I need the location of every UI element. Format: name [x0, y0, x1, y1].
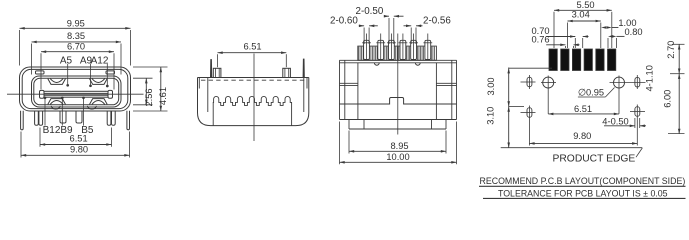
svg-text:10.00: 10.00: [386, 152, 409, 162]
svg-text:4-1.10: 4-1.10: [644, 65, 654, 91]
svg-text:2-0.56: 2-0.56: [423, 15, 451, 26]
rear view lower band top line: [340, 119, 457, 121]
svg-text:2-0.50: 2-0.50: [356, 6, 384, 17]
top view inner side line right: [303, 78, 305, 113]
leader B12: [44, 99, 46, 126]
front view horizontal centerline: [7, 93, 144, 95]
front view cavity outer contour: [32, 76, 122, 107]
top view body inner edge right: [306, 78, 308, 89]
rear view key line with center step: [340, 98, 457, 105]
svg-text:PRODUCT EDGE: PRODUCT EDGE: [553, 154, 636, 165]
pcb oval pad bottom-left: [527, 108, 532, 118]
top view inner side line left: [207, 78, 209, 113]
front view tongue right end cap: [108, 90, 113, 98]
svg-text:A12: A12: [91, 55, 109, 66]
svg-text:0.76: 0.76: [532, 35, 550, 45]
front view left leg pair: [35, 111, 39, 126]
svg-text:8.95: 8.95: [390, 141, 408, 151]
pcb hole left: [543, 77, 554, 88]
top view body inner edge left: [198, 78, 200, 89]
rear view inner verticals outer pair: [344, 60, 346, 119]
leader B5: [83, 99, 85, 126]
rear view solder pins row: [364, 40, 370, 59]
front view weld mark right: [106, 71, 115, 74]
svg-text:9.95: 9.95: [67, 19, 85, 29]
top view shell tab tip right: [303, 59, 304, 78]
front view cavity bottom arc right: [88, 106, 97, 109]
pcb oval pad bottom-right: [635, 107, 640, 117]
pcb hole right: [614, 77, 625, 88]
pcb pads row: [549, 49, 557, 71]
rear view dimple right: [415, 63, 420, 65]
rear view band bottom double line right: [436, 82, 456, 84]
top view shell tab tip left: [210, 60, 211, 78]
svg-text:0.80: 0.80: [625, 27, 643, 37]
leader B9: [61, 99, 63, 126]
front view top contact bump left: [48, 79, 66, 85]
svg-text:3.00: 3.00: [486, 77, 496, 95]
svg-text:6.51: 6.51: [574, 104, 592, 114]
top view vertical centerline: [253, 54, 255, 142]
svg-text:2-0.60: 2-0.60: [330, 15, 358, 26]
rear view vertical centerline: [397, 34, 399, 135]
svg-text:6.51: 6.51: [70, 133, 88, 143]
svg-text:3.04: 3.04: [572, 10, 590, 20]
front view side peg right: [127, 111, 130, 130]
front view cavity bottom arc left: [51, 106, 60, 109]
dimension 4.61 shell height: [133, 66, 168, 68]
svg-text:6.00: 6.00: [663, 90, 673, 108]
front view middle stub right: [76, 111, 82, 123]
product edge line: [501, 147, 643, 149]
top view hidden edge dashed: [201, 79, 307, 81]
svg-text:TOLERANCE FOR PCB LAYOUT IS ±: TOLERANCE FOR PCB LAYOUT IS ± 0.05: [498, 188, 668, 198]
pcb oval pad top-left: [527, 77, 532, 87]
front view shell outer contour: [20, 67, 131, 111]
front view bottom contact bump right: [90, 99, 108, 105]
front view tongue left end cap: [40, 90, 45, 98]
top view mounting post right: [283, 68, 291, 77]
front view side peg left: [21, 111, 24, 130]
front view tongue body: [44, 91, 108, 97]
rear view bottom skirt: [348, 120, 350, 130]
front view shell inner contour: [22, 69, 128, 108]
front view bottom contact bump left: [48, 99, 66, 105]
leader A9: [90, 64, 92, 85]
rear view body outer box: [340, 59, 457, 61]
front view middle stub left: [60, 111, 66, 123]
rear view hatched solder band: [358, 46, 437, 60]
dimension 2.56 cavity height: [133, 77, 153, 79]
svg-text:6.70: 6.70: [67, 41, 85, 51]
front view right leg pair: [107, 111, 111, 126]
rear view band bottom double line left: [340, 82, 358, 84]
front view top contact bump right: [90, 79, 108, 85]
svg-text:2.70: 2.70: [666, 41, 676, 59]
top view contact comb scallops: [213, 96, 291, 125]
svg-text:4-0.50: 4-0.50: [602, 117, 628, 127]
svg-text:3.10: 3.10: [486, 107, 496, 125]
rear view dimple left: [374, 63, 379, 65]
front view cavity inner contour: [34, 78, 119, 105]
svg-text:A5: A5: [60, 55, 73, 66]
svg-text:RECOMMEND P.C.B LAYOUT(COMPONE: RECOMMEND P.C.B LAYOUT(COMPONENT SIDE): [480, 176, 686, 186]
leader A5: [67, 64, 69, 84]
svg-text:B12B9: B12B9: [43, 125, 73, 136]
leader A12: [106, 64, 108, 85]
svg-text:∅0.95: ∅0.95: [578, 87, 604, 97]
top view mounting post left: [213, 68, 221, 77]
svg-text:6.51: 6.51: [243, 41, 261, 51]
rear view inner verticals cavity sides: [357, 63, 359, 120]
top view body outline: [198, 78, 309, 126]
svg-text:4.61: 4.61: [158, 87, 168, 105]
svg-text:9.80: 9.80: [573, 131, 591, 141]
svg-text:5.50: 5.50: [576, 0, 594, 10]
svg-text:9.80: 9.80: [70, 145, 88, 155]
svg-text:8.35: 8.35: [67, 31, 85, 41]
pcb oval pad top-right: [635, 77, 640, 87]
front view weld mark left: [36, 71, 45, 74]
svg-text:2.56: 2.56: [144, 88, 154, 106]
